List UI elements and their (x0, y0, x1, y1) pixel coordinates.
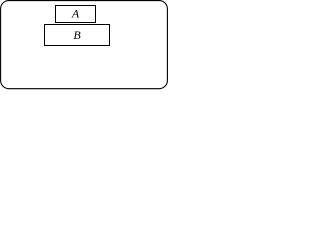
outer rounded border frame (1, 1, 168, 89)
svg-text:A: A (71, 7, 80, 21)
svg-text:B: B (73, 28, 81, 42)
box A (56, 6, 96, 23)
box B (45, 25, 110, 46)
